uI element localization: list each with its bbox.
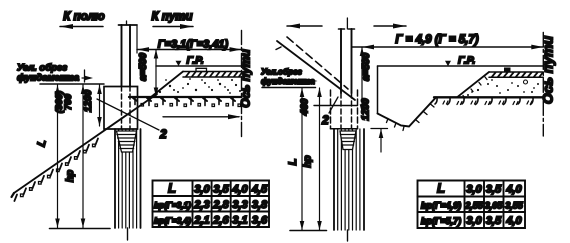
- svg-text:hр: hр: [65, 170, 76, 182]
- arrow of obrez label (right): [309, 80, 313, 82]
- dim line hp with 460 segment (right): [319, 88, 321, 230]
- svg-text:а=500: а=500: [138, 53, 149, 82]
- gabarit dim line G=4,9 (right): [352, 46, 544, 48]
- svg-text:2: 2: [159, 127, 167, 141]
- soil dashes below ground (right): [443, 101, 532, 105]
- mast left: cap: [119, 24, 138, 26]
- svg-text:hp(Г=5,7): hp(Г=5,7): [421, 216, 461, 226]
- svg-text:фундамента: фундамента: [17, 73, 79, 84]
- svg-text:4,0: 4,0: [505, 215, 522, 227]
- track axis line (right): [542, 32, 544, 136]
- slope hatch ticks (left): [14, 138, 98, 201]
- pile right: outline: [334, 129, 364, 230]
- svg-text:700: 700: [63, 93, 74, 110]
- GR line (left): [156, 65, 242, 67]
- svg-text:3,0: 3,0: [466, 215, 482, 227]
- rail mark (left): [196, 68, 207, 71]
- mast left: stub above cap: [126, 21, 128, 25]
- svg-text:4,0: 4,0: [231, 184, 248, 196]
- mast left: left chord: [121, 25, 123, 86]
- arrow of obrez label (left): [82, 77, 90, 79]
- soil hooks below ground (right): [435, 98, 533, 105]
- svg-text:L: L: [287, 158, 299, 165]
- obrez level line (right): [262, 87, 316, 89]
- svg-text:3,5: 3,5: [486, 184, 502, 196]
- GR line (right): [378, 65, 544, 67]
- svg-text:3,55: 3,55: [505, 201, 524, 211]
- ditch profile (right): [378, 97, 437, 126]
- mast right: chords dashed in foundation: [341, 93, 352, 129]
- pile left: anchor trapezoid: [117, 131, 137, 152]
- svg-text:3,1: 3,1: [232, 215, 247, 227]
- svg-text:Усл.обрез: Усл.обрез: [261, 67, 303, 77]
- ground slope line (left): [14, 94, 157, 193]
- svg-text:3,5: 3,5: [486, 215, 502, 227]
- datum line at pile bottom (right): [290, 230, 327, 232]
- mast right: axis stub below pile: [347, 230, 349, 241]
- svg-text:3,0: 3,0: [194, 184, 210, 196]
- svg-text:2: 2: [321, 113, 329, 127]
- svg-text:3,5: 3,5: [213, 184, 229, 196]
- leader to label 2 (right): [329, 97, 338, 113]
- svg-text:Г.Р.: Г.Р.: [187, 55, 204, 67]
- svg-text:фундамента: фундамента: [261, 77, 315, 86]
- svg-text:4,5: 4,5: [251, 184, 268, 196]
- label K puti: [152, 11, 193, 29]
- sleeper band (right): [489, 72, 543, 77]
- dim line a=500 (left): [155, 50, 157, 97]
- svg-text:3,0: 3,0: [466, 184, 482, 196]
- svg-text:1200: 1200: [83, 89, 94, 112]
- ground slope dashed variant (right): [287, 37, 348, 89]
- mast left: chords dashed through foundation: [121, 86, 123, 129]
- sleeper band hatch (right): [492, 73, 543, 77]
- svg-text:Г=3,1(Г=3,41): Г=3,1(Г=3,41): [158, 39, 229, 51]
- ballast dots (left): [155, 78, 241, 94]
- svg-text:3,6: 3,6: [252, 215, 268, 227]
- pile right: anchor trapezoid: [340, 131, 356, 150]
- ditch depth arrow (right): [380, 129, 382, 152]
- mast left: right chord: [129, 25, 131, 86]
- svg-text:hp(Г=3,1): hp(Г=3,1): [154, 201, 191, 210]
- obrez label down tick (left): [84, 70, 86, 82]
- soil hooks below ground (left): [133, 98, 235, 106]
- dim line a=500 / 1200 (right): [361, 47, 363, 113]
- svg-text:4,0: 4,0: [505, 184, 522, 196]
- gabarit dim line G=3,1 (left): [137, 49, 242, 51]
- datum line at pile bottom (left): [50, 228, 111, 230]
- pile right: vertical hatch: [338, 129, 360, 230]
- mast left: axis stub below pile: [127, 228, 129, 240]
- ditch bottom level tick (right): [371, 128, 388, 130]
- svg-text:2,3: 2,3: [193, 199, 209, 211]
- label K polyu: [60, 11, 105, 29]
- arrow to field (right diagram): [287, 25, 322, 27]
- pile left: outline: [115, 129, 141, 228]
- svg-text:2,1: 2,1: [193, 215, 209, 227]
- svg-text:L: L: [168, 181, 176, 196]
- svg-text:Г.Р.: Г.Р.: [458, 55, 475, 67]
- lower dim line to track axis (left): [163, 116, 239, 118]
- svg-text:Ось пути: Ось пути: [540, 35, 556, 104]
- ballast slope (left): [151, 72, 183, 98]
- sleeper band (left): [183, 72, 242, 78]
- svg-text:а=500: а=500: [361, 53, 372, 82]
- leader to label 2 (left): [97, 99, 159, 130]
- svg-text:Г = 4,9 (Г = 5,7): Г = 4,9 (Г = 5,7): [395, 34, 478, 46]
- ballast circle mark (right): [524, 80, 528, 84]
- 460 lower tick (right): [314, 105, 358, 107]
- ground slope tick (right): [276, 47, 281, 50]
- arrow to track (right diagram): [374, 25, 406, 27]
- pile left: vertical hatch: [119, 129, 137, 228]
- svg-text:L: L: [437, 181, 445, 196]
- svg-text:2,55: 2,55: [464, 201, 484, 211]
- svg-text:hр: hр: [303, 155, 314, 167]
- track axis line (left): [241, 31, 243, 138]
- svg-text:hp(Г=4,9): hp(Г=4,9): [421, 201, 461, 211]
- foundation left: outline: [104, 87, 138, 130]
- mast right: stub: [346, 18, 348, 29]
- gabarit dim extension line (left): [136, 26, 138, 53]
- dim line L (left): [57, 85, 59, 228]
- table left: [153, 181, 270, 228]
- ballast bottom / ground line (left): [129, 96, 242, 98]
- svg-text:3,05: 3,05: [485, 201, 504, 211]
- svg-text:К пути: К пути: [152, 11, 193, 23]
- rail mark (right): [504, 68, 511, 73]
- dim line 1200 (left): [99, 85, 101, 126]
- ground line (right): [434, 96, 543, 98]
- svg-text:3,8: 3,8: [252, 199, 268, 211]
- foundation right: dashed outline: [331, 90, 358, 129]
- svg-text:2,8: 2,8: [212, 199, 229, 211]
- GR marker triangle (right): [445, 61, 451, 66]
- mast right: right chord: [351, 29, 353, 93]
- slope line end serif (left): [12, 193, 15, 197]
- ground slope solid (right): [277, 41, 355, 100]
- sleeper band hatch (left): [186, 72, 242, 77]
- ditch hatch (right): [387, 105, 435, 131]
- svg-text:460: 460: [300, 98, 311, 116]
- dim line hp (left): [82, 85, 84, 228]
- svg-text:1200: 1200: [361, 98, 372, 121]
- obrez level line (left): [40, 83, 104, 85]
- svg-text:Ось пути: Ось пути: [239, 49, 253, 108]
- table right: [418, 181, 526, 229]
- mast right: cap ticks: [339, 28, 355, 30]
- slope hatch squares (left): [21, 144, 96, 197]
- svg-text:hp(Г=3,4): hp(Г=3,4): [154, 217, 191, 226]
- ballast slope (right): [457, 72, 489, 97]
- cut edge vertical (right): [377, 66, 379, 114]
- svg-text:К полю: К полю: [63, 11, 104, 23]
- dim line L (right): [301, 88, 303, 230]
- svg-text:2,6: 2,6: [212, 215, 229, 227]
- ballast dots (right): [467, 79, 539, 96]
- GR marker triangle (left): [176, 61, 182, 66]
- soil dots below ground (left): [141, 104, 241, 107]
- ballast slope hatch (right): [463, 77, 487, 98]
- svg-text:3,3: 3,3: [232, 199, 247, 211]
- mast right: left chord: [340, 29, 342, 93]
